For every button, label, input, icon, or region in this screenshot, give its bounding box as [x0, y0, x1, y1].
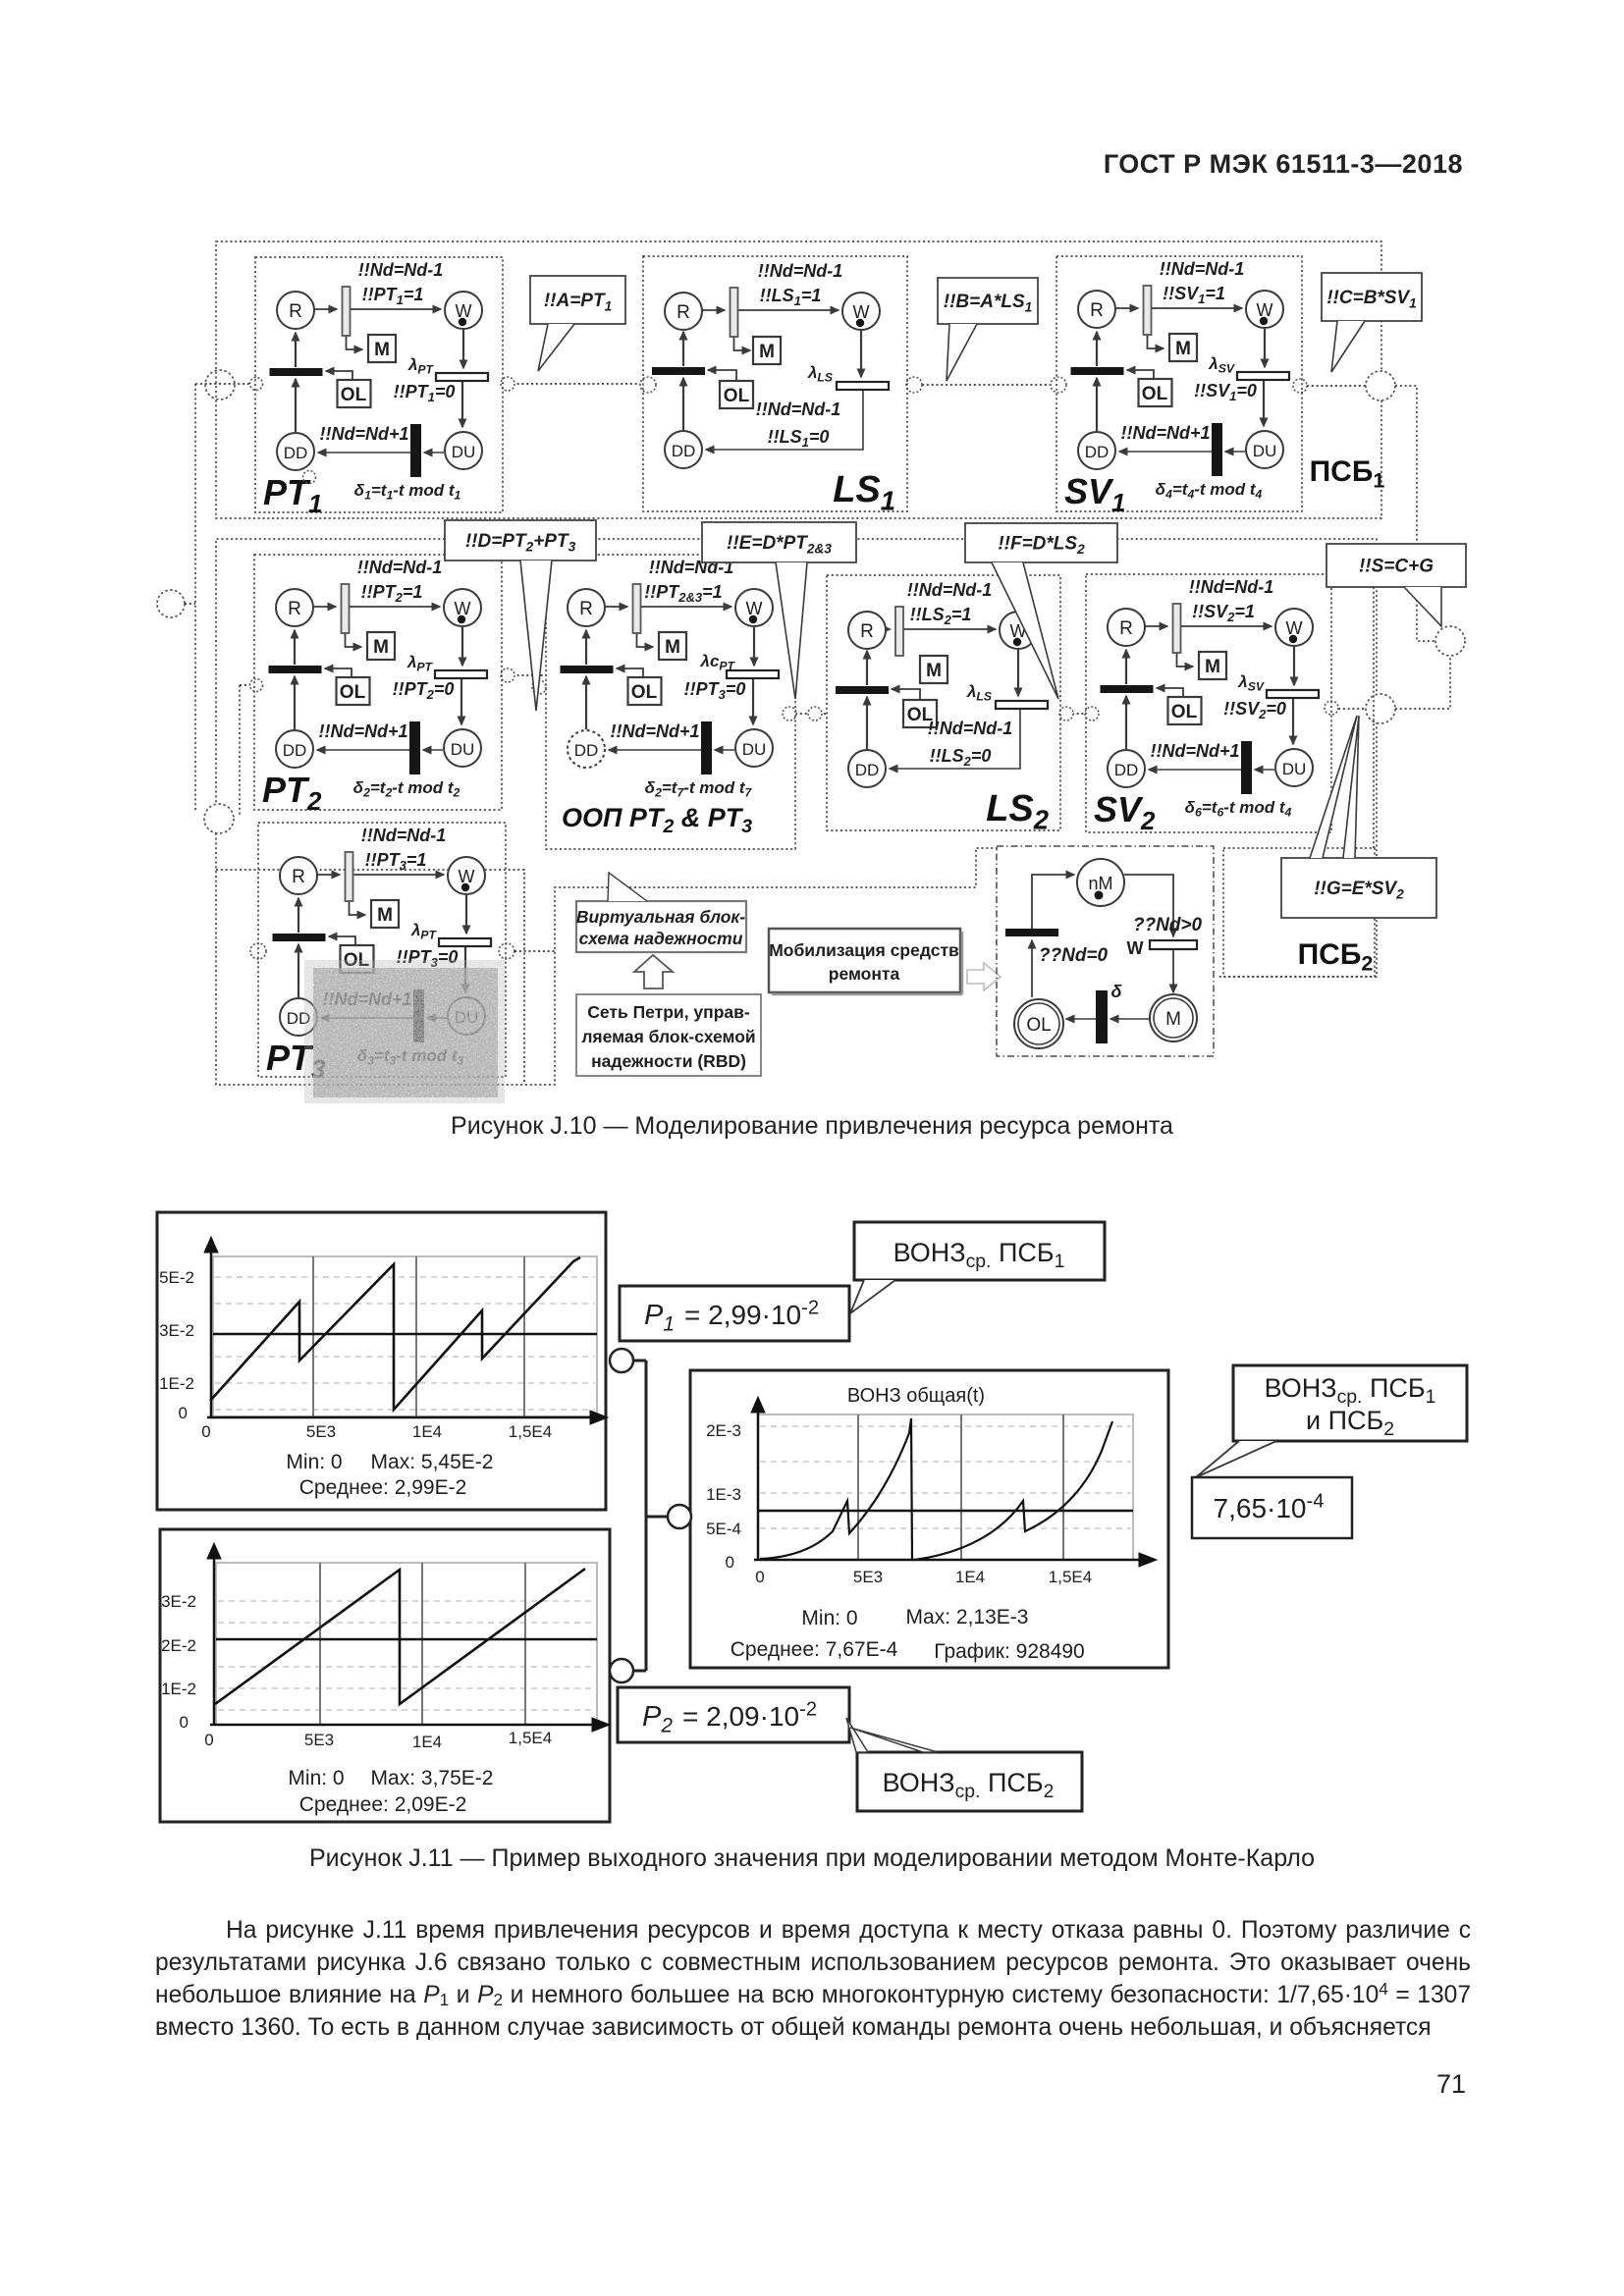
callout !!G=E*SV2: [1281, 858, 1436, 918]
wire OL to T2 (LS2): [892, 689, 920, 700]
svg-text:OL: OL: [724, 386, 750, 406]
wire T2 to R (LS1): [682, 332, 684, 366]
node circle LS2 right edge: [1059, 707, 1073, 721]
label δ_{3}=t_{3}-t mod t_{3} (PT3): [357, 1046, 464, 1068]
wire T1 to W (LS1): [738, 309, 839, 311]
wire W to lambda-bar (SV1): [1264, 329, 1266, 367]
wire T1 to W (LS2): [903, 628, 996, 630]
group box PSB2 right dashed box: [1223, 848, 1375, 977]
wire stub node D: [185, 603, 195, 605]
svg-text:R: R: [1119, 618, 1133, 639]
place M box (PT3): [371, 900, 399, 928]
svg-text:λPT​: λPT​: [407, 355, 435, 377]
node circle LS1 left edge: [640, 377, 656, 393]
place R (PT3): [280, 857, 317, 894]
wire lambda-bar to DU (PT1): [461, 381, 463, 427]
place DD (SV1): [1078, 432, 1115, 469]
svg-text:!!LS1​=0: !!LS1​=0: [768, 427, 830, 450]
callout !!B=A*LS1: [938, 278, 1038, 324]
svg-text:5E3: 5E3: [304, 1731, 334, 1749]
label !!LS_{1}=1 (LS1): [760, 286, 822, 308]
wire DD to T2 (LS2): [866, 697, 868, 750]
node circle bottom-left big: [204, 804, 234, 833]
chart1 plot frame: [213, 1256, 597, 1416]
svg-text:DD: DD: [672, 442, 696, 460]
svg-text:δ: δ: [1111, 982, 1123, 1001]
place OL box (PT2): [337, 677, 370, 705]
svg-text:R: R: [860, 621, 874, 642]
transition T2 black bar (PT2): [269, 666, 322, 673]
callout !!C=B*SV1: [1322, 273, 1422, 321]
net wire SV1 to node C: [1307, 385, 1366, 387]
svg-text:OL: OL: [1142, 384, 1168, 404]
wire DD to T2 (LS1): [682, 378, 684, 431]
connector circle chart1: [610, 1349, 633, 1372]
label !!SV_{1}=1 (SV1): [1163, 284, 1225, 306]
place M box (PT2): [367, 632, 395, 660]
connector vertical line: [645, 1361, 648, 1671]
wire DD to T2 (SV2): [1125, 696, 1127, 749]
label δ_{6}=t_{6}-t mod t_{4} (SV2): [1185, 798, 1292, 820]
wire lambda-bar to DU (SV1): [1263, 380, 1265, 426]
place W with token (OOP): [735, 589, 773, 626]
wire lambda-bar to DU (OOP): [752, 678, 754, 724]
svg-text:R: R: [579, 599, 593, 619]
place M box (LS2): [920, 656, 947, 683]
wire vertical x1399 to PSB2: [1373, 587, 1375, 848]
place M box (LS1): [753, 337, 781, 364]
transition T1 grey bar (OOP): [633, 584, 641, 633]
wire T1 to W (OOP): [641, 606, 732, 608]
wire DU to T3 (SV2): [1255, 769, 1274, 771]
wire R to T1 (OOP): [605, 606, 627, 608]
transition black bar top-left: [1005, 929, 1058, 936]
svg-text:M: M: [665, 637, 680, 658]
callout !!A=PT1: [530, 276, 625, 324]
place DU (PT2): [444, 729, 481, 767]
place DD (SV2): [1108, 750, 1145, 787]
wire T1 to W (SV1): [1152, 307, 1243, 309]
label δ_{2}=t_{2}-t mod t_{2} (PT2): [353, 778, 460, 800]
wire DU to T3 (PT3): [427, 1017, 447, 1019]
page number: [1419, 2069, 1466, 2100]
place R (LS2): [848, 612, 886, 649]
label λ_{SV} (SV1): [1208, 354, 1235, 376]
place R (PT2): [276, 589, 313, 626]
wire OL to T2 (LS1): [708, 370, 736, 381]
transition lambda white bar (LS1): [837, 382, 889, 390]
svg-text:1,5E4: 1,5E4: [509, 1422, 552, 1441]
label !!Nd=Nd-1 mid (LS2): [928, 719, 1013, 738]
svg-text:OL: OL: [1026, 1015, 1051, 1036]
svg-text:!!F=D*LS2​: !!F=D*LS2​: [998, 534, 1085, 557]
svg-text:!!SV1​=0: !!SV1​=0: [1194, 381, 1257, 403]
svg-text:nM: nM: [1088, 874, 1112, 893]
wire DD to T2 (PT2): [294, 676, 296, 729]
connector stub mid: [646, 1516, 668, 1519]
svg-text:!!LS2​=1: !!LS2​=1: [910, 605, 972, 627]
svg-text:Среднее: 2,99E-2: Среднее: 2,99E-2: [299, 1476, 467, 1499]
svg-text:Min: 0: Min: 0: [286, 1451, 342, 1473]
node circle left big (row1): [205, 370, 235, 400]
svg-text:!!B=A*LS1​: !!B=A*LS1​: [944, 292, 1033, 314]
svg-text:ремонта: ремонта: [829, 964, 900, 984]
svg-text:M: M: [759, 342, 775, 362]
chart3 axes with arrows: [757, 1409, 760, 1560]
block name LS1: [833, 469, 895, 515]
svg-text:R: R: [289, 301, 302, 322]
place OL double circle: [1014, 999, 1063, 1048]
place R (SV1): [1078, 291, 1115, 328]
svg-text:DD: DD: [1114, 761, 1139, 779]
place OL box (PT3): [341, 945, 374, 973]
chart2 plot frame: [216, 1563, 597, 1725]
place OL box (SV1): [1139, 379, 1172, 406]
wire delta bar to OL: [1066, 1018, 1096, 1020]
wire R to T1 (LS1): [702, 309, 725, 311]
block name SV1: [1064, 471, 1125, 517]
svg-text:3E-2: 3E-2: [159, 1321, 194, 1340]
label !!Nd=Nd-1 (OOP): [649, 558, 734, 577]
svg-text:LS1​: LS1​: [833, 469, 895, 515]
place DD (LS1): [665, 431, 702, 468]
chart3 mean line: [758, 1510, 1133, 1513]
label !!PT_{1}=1 (PT1): [362, 285, 424, 307]
svg-text:Среднее: 2,09E-2: Среднее: 2,09E-2: [299, 1793, 467, 1816]
transition T1 grey bar (PT2): [342, 584, 350, 633]
wire nM to W-bar: [1124, 875, 1173, 936]
svg-text:DU: DU: [1282, 760, 1307, 778]
label !!PT_{2&3}=1 (OOP): [644, 582, 722, 605]
place W with token (LS2): [1000, 612, 1037, 649]
label !!PT_{3}=0 (OOP): [684, 679, 746, 702]
svg-text:!!SV2​=0: !!SV2​=0: [1223, 699, 1286, 721]
place W with token (LS1): [842, 293, 880, 330]
block PT2 dotted border: [254, 555, 502, 810]
label !!PT_{2}=1 (PT2): [361, 582, 423, 605]
svg-text:!!PT1​=0: !!PT1​=0: [394, 382, 456, 404]
wire left vertical x244: [239, 685, 241, 817]
svg-text:M: M: [377, 905, 393, 926]
hollow up arrow: [634, 955, 673, 988]
svg-text:1,5E4: 1,5E4: [1049, 1568, 1092, 1586]
label λ_{LS} (LS2): [966, 682, 992, 704]
wire T1 to M (PT3): [350, 901, 366, 915]
wire stub PT2 edge: [240, 684, 249, 686]
label !!LS_{1}=0 (LS1): [768, 427, 830, 450]
svg-text:1E4: 1E4: [955, 1568, 985, 1586]
chart3 outer box: [690, 1370, 1168, 1668]
svg-text:!!Nd=Nd+1: !!Nd=Nd+1: [1120, 423, 1210, 443]
svg-text:График: 928490: График: 928490: [934, 1640, 1085, 1663]
node circle LS1 right edge: [906, 377, 922, 393]
block LS2 dotted border: [827, 575, 1060, 830]
wire T2 to R (PT3): [298, 898, 299, 933]
svg-text:5E3: 5E3: [853, 1568, 883, 1586]
svg-text:!!SV2​=1: !!SV2​=1: [1192, 602, 1255, 624]
chart2 outer box: [160, 1529, 610, 1822]
chart1 vertical gridlines: [312, 1256, 314, 1416]
wire OL to T2 (SV2): [1157, 688, 1183, 697]
svg-text:0: 0: [726, 1553, 734, 1572]
wire DD to T2 (OOP): [585, 676, 587, 729]
net wire LS2-SV2: [1067, 713, 1086, 715]
callout !!S=C+G: [1326, 544, 1466, 587]
label !!Nd=Nd+1 (PT2): [318, 721, 407, 741]
wire T-black to nM: [1032, 875, 1074, 933]
block name PT3: [266, 1038, 326, 1084]
chart1 outer box: [157, 1212, 606, 1510]
node circle PT3 left edge: [250, 943, 266, 959]
svg-text:!!LS1​=1: !!LS1​=1: [760, 286, 822, 308]
svg-text:DD: DD: [284, 444, 308, 462]
chart3 plot frame: [758, 1415, 1133, 1560]
box Mobilization of repair resources: [769, 929, 960, 992]
transition T3 black bar (PT1): [410, 424, 421, 477]
svg-text:!!Nd=Nd+1: !!Nd=Nd+1: [1150, 741, 1239, 761]
transition T2 black bar (LS1): [652, 367, 705, 375]
node circle OOP left edge: [532, 680, 546, 694]
label !!Nd=Nd-1 (SV2): [1189, 577, 1274, 597]
node circle OOP right edge: [783, 707, 796, 721]
node circle S output: [1435, 626, 1465, 656]
net wire LS1-SV1: [922, 384, 1050, 386]
transition T2 black bar (PT3): [273, 934, 326, 941]
wire T2 to R (PT2): [294, 630, 296, 665]
wire T2 to R (SV1): [1096, 332, 1098, 366]
svg-text:R: R: [288, 599, 301, 619]
svg-text:PT2​: PT2​: [262, 770, 322, 816]
caption figure J.10: [0, 1112, 1624, 1141]
svg-text:5E3: 5E3: [306, 1422, 336, 1441]
box Petri net controlled by RBD: [576, 994, 761, 1076]
svg-text:λLS​: λLS​: [966, 682, 992, 704]
svg-text:ляемая блок-схемой: ляемая блок-схемой: [581, 1027, 755, 1046]
node circle G (row2 right big): [1366, 694, 1395, 723]
svg-text:δ2​=t7​-t mod t7​: δ2​=t7​-t mod t7​: [645, 778, 753, 800]
label !!SV_{1}=0 (SV1): [1194, 381, 1257, 403]
svg-text:!!PT1​=1: !!PT1​=1: [362, 285, 424, 307]
chart2 horizontal dashed gridlines: [218, 1600, 595, 1602]
svg-text:!!D=PT2​+PT3​: !!D=PT2​+PT3​: [465, 531, 576, 554]
svg-text:!!Nd=Nd-1: !!Nd=Nd-1: [1160, 259, 1245, 279]
svg-text:!!PT3​=0: !!PT3​=0: [684, 679, 746, 702]
svg-text:R: R: [1090, 300, 1104, 321]
svg-text:DD: DD: [283, 741, 307, 760]
place W with token (PT1): [445, 292, 482, 329]
transition lambda white bar (SV1): [1237, 372, 1289, 380]
svg-text:Min: 0: Min: 0: [801, 1607, 857, 1629]
block name OOP: [562, 803, 752, 837]
connector circle chart2: [610, 1659, 633, 1682]
wire W-bar down to M: [1172, 949, 1174, 992]
svg-text:1,5E4: 1,5E4: [509, 1729, 552, 1747]
chart1 mean line: [213, 1333, 597, 1336]
chart2 vertical gridlines: [319, 1563, 321, 1725]
wire T1 to W (PT2): [350, 606, 441, 608]
svg-text:DU: DU: [451, 740, 475, 759]
transition lambda white bar (OOP): [727, 670, 779, 678]
block SV2 dotted border: [1086, 574, 1331, 832]
svg-text:DU: DU: [452, 443, 476, 461]
node circle SV1 left edge: [1051, 377, 1066, 393]
label λ_{LS} (LS1): [807, 363, 833, 385]
svg-text:0: 0: [201, 1422, 210, 1441]
svg-text:λcPT​: λcPT​: [700, 652, 736, 673]
svg-text:!!LS2​=0: !!LS2​=0: [930, 746, 992, 769]
node circle PT1 left edge: [250, 378, 263, 391]
svg-text:!!S=C+G: !!S=C+G: [1359, 557, 1434, 577]
block PT1 dotted border: [255, 257, 503, 512]
node circle PT3 right edge: [499, 943, 514, 959]
label !!PT_{3}=0 (PT3): [397, 947, 459, 970]
callout !!D=PT2+PT3: [445, 520, 596, 561]
svg-text:ПСБ2​: ПСБ2​: [1298, 938, 1374, 976]
wire DU to T3 (PT2): [423, 749, 443, 751]
label !!Nd=Nd-1 (PT3): [361, 826, 447, 845]
wire DU to T3 (SV1): [1225, 451, 1245, 453]
label !!Nd=Nd+1 (PT3): [322, 989, 411, 1009]
node circle D (left mid big): [157, 590, 185, 617]
node circle PT1 right edge: [501, 377, 514, 391]
svg-text:??Nd=0: ??Nd=0: [1039, 945, 1109, 966]
transition T1 grey bar (SV1): [1144, 286, 1152, 335]
svg-text:λPT​: λPT​: [406, 653, 434, 674]
svg-text:5E-2: 5E-2: [159, 1268, 194, 1287]
wire OL to T2 (SV1): [1127, 370, 1154, 379]
place DD (LS2): [848, 750, 886, 787]
transition W white bar: [1150, 940, 1197, 949]
callout VONZ sr PSB1 i PSB2: [1233, 1365, 1467, 1441]
svg-text:W: W: [1127, 938, 1144, 958]
net wire PT1-LS1: [508, 383, 643, 385]
wire stub PT3 right: [514, 950, 555, 952]
label !!Nd=Nd+1 (SV1): [1120, 423, 1210, 443]
wire DD to T2 (PT3): [298, 944, 299, 997]
place OL box (OOP): [628, 677, 662, 705]
wire W to lambda-bar (SV2): [1293, 647, 1295, 685]
svg-text:M: M: [926, 661, 942, 681]
transition T2 black bar (SV1): [1071, 367, 1124, 375]
chart3 vertical gridlines: [857, 1415, 859, 1560]
svg-text:R: R: [292, 867, 305, 887]
block name SV2: [1094, 789, 1156, 835]
place W with token (SV2): [1275, 609, 1313, 646]
place DU (SV1): [1246, 431, 1283, 468]
transition lambda white bar (PT3): [439, 938, 491, 946]
svg-text:SV1​: SV1​: [1064, 471, 1125, 517]
wire T3 to DD (OOP): [609, 749, 701, 751]
svg-text:λSV​: λSV​: [1208, 354, 1235, 376]
svg-text:M: M: [374, 340, 390, 360]
wire T2 to R (OOP): [585, 630, 587, 665]
label !!Nd=Nd+1 (OOP): [610, 721, 699, 741]
svg-text:SV2​: SV2​: [1094, 789, 1156, 835]
label λ_{PT} (PT1): [407, 355, 435, 377]
svg-text:OL: OL: [340, 682, 366, 703]
chart1 axes with arrows: [210, 1249, 213, 1417]
svg-text:DU: DU: [742, 740, 767, 759]
svg-text:DD: DD: [855, 761, 880, 779]
chart3 horizontal dashed gridlines: [760, 1425, 1131, 1427]
svg-text:1E4: 1E4: [412, 1422, 442, 1441]
wire DU to T3 (PT1): [424, 452, 444, 454]
connector stub top: [633, 1360, 646, 1362]
place OL box (LS1): [720, 381, 753, 408]
page header GOST: [1011, 149, 1463, 180]
wire DU to T3 (OOP): [715, 749, 734, 751]
place M box (SV1): [1169, 334, 1197, 361]
svg-text:5E-4: 5E-4: [706, 1520, 741, 1538]
node circle SV2 right edge: [1325, 701, 1338, 715]
block name LS2: [986, 788, 1049, 834]
svg-text:0: 0: [180, 1713, 189, 1732]
svg-text:λLS​: λLS​: [807, 363, 833, 385]
wire node G to node S: [1395, 657, 1450, 709]
wire lambda-bar to DD (LS2): [890, 709, 1020, 769]
small dotted circle below PT1 DD: [303, 471, 316, 484]
label !!Nd=Nd-1 (PT2): [357, 558, 443, 577]
label δ_{1}=t_{1}-t mod t_{1} (PT1): [354, 481, 461, 503]
wire T1 to M (SV1): [1148, 335, 1164, 348]
place R (SV2): [1108, 609, 1145, 646]
block PT3 dotted border: [258, 823, 506, 1077]
place DU (PT3): [448, 997, 485, 1035]
svg-text:Сеть Петри, управ-: Сеть Петри, управ-: [587, 1002, 750, 1022]
svg-text:δ2​=t2​-t mod t2​: δ2​=t2​-t mod t2​: [353, 778, 460, 800]
callout !!F=D*LS2: [965, 523, 1117, 562]
place nM with token: [1077, 859, 1124, 906]
transition lambda white bar (SV2): [1267, 690, 1319, 698]
label !!PT_{3}=1 (PT3): [365, 850, 427, 873]
callout P1 value box: [620, 1286, 849, 1341]
transition T3 black bar (SV2): [1241, 741, 1252, 794]
svg-text:Виртуальная блок-: Виртуальная блок-: [576, 907, 745, 927]
wire T1 to W (SV2): [1181, 625, 1272, 627]
callout !!E=D*PT2&3: [702, 522, 856, 562]
svg-text:!!Nd=Nd-1: !!Nd=Nd-1: [758, 261, 843, 281]
svg-text:!!Nd=Nd-1: !!Nd=Nd-1: [1189, 577, 1274, 597]
wire W to lambda-bar (OOP): [753, 627, 755, 666]
wire OL to T2 (PT1): [326, 371, 352, 380]
svg-text:1E-2: 1E-2: [161, 1680, 196, 1698]
hollow right arrow: [967, 963, 1001, 990]
wire T3 to DD (SV1): [1119, 451, 1212, 453]
wire R to T1 (SV1): [1115, 307, 1138, 309]
transition T2 black bar (PT1): [270, 368, 323, 376]
wire T3 to DD (SV2): [1149, 769, 1241, 771]
wire OL up to black bar: [1031, 940, 1033, 997]
wire T1 to M (PT2): [346, 633, 362, 647]
svg-text:!!A=PT1​: !!A=PT1​: [544, 291, 612, 313]
svg-text:!!PT2&3​=1: !!PT2&3​=1: [644, 582, 722, 605]
place M box (PT1): [368, 335, 396, 362]
label !!LS_{2}=1 (LS2): [910, 605, 972, 627]
svg-text:0: 0: [755, 1568, 764, 1586]
chart2 mean line: [216, 1638, 597, 1641]
wire T1 to M (PT1): [347, 336, 363, 349]
wire T3 to DD (PT3): [321, 1017, 413, 1019]
chart1 sawtooth curve: [210, 1257, 580, 1410]
node circle SV2 left edge: [1085, 707, 1099, 721]
chart1 horizontal dashed gridlines: [215, 1276, 595, 1278]
svg-text:LS2​: LS2​: [986, 788, 1049, 834]
label !!PT_{2}=0 (PT2): [393, 679, 455, 702]
svg-text:Max: 3,75E-2: Max: 3,75E-2: [371, 1767, 494, 1789]
group box PT3 outer dashed outline: [216, 870, 524, 1085]
transition lambda white bar (LS2): [996, 701, 1048, 709]
transition T3 black bar (PT2): [409, 721, 420, 774]
